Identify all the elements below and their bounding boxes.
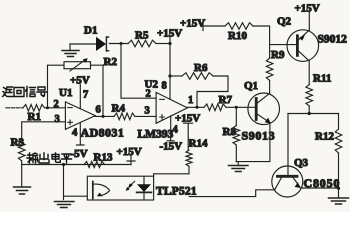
node (pin2 / R2 tap): [46, 106, 49, 109]
transistor Q1: [248, 93, 280, 125]
svg-text:R6: R6: [194, 62, 208, 74]
resistor R12: [335, 129, 342, 153]
svg-text:R14: R14: [189, 138, 208, 150]
svg-text:-15V: -15V: [160, 141, 183, 153]
resistor R14: [154, 150, 192, 176]
op-amp U1: [65, 102, 95, 129]
wire (tap down to TLP and ground): [64, 165, 88, 200]
node (R12/Q3 emitter/ground): [337, 187, 340, 190]
label 输出电平 (output level): [27, 153, 72, 163]
wire (corner to Q2 base): [270, 44, 298, 46]
ground (Q1 emitter / R8): [229, 162, 249, 172]
svg-text:D1: D1: [84, 25, 97, 37]
resistor R9: [266, 45, 273, 94]
wire (R7 to Q1 base): [226, 106, 256, 108]
svg-text:6: 6: [96, 105, 101, 116]
light arrows: [126, 181, 135, 191]
wire (ground to D1 anode): [70, 43, 96, 45]
ground (R3): [14, 187, 31, 194]
svg-text:+15V: +15V: [180, 18, 205, 30]
resistor R4: [114, 113, 135, 120]
power +15V (Q2 emitter): [295, 3, 320, 31]
svg-text:R11: R11: [313, 73, 331, 85]
diode D1: [96, 37, 109, 51]
LED (inside TLP521): [137, 176, 152, 200]
svg-text:Q1: Q1: [244, 80, 258, 92]
wire (+15V node down to U2 pin 8): [169, 44, 171, 100]
svg-text:AD8031: AD8031: [81, 126, 125, 140]
svg-text:R2: R2: [104, 56, 118, 68]
svg-text:R3: R3: [11, 137, 25, 149]
resistor R3: [18, 139, 25, 161]
ground (D1 anode): [62, 44, 79, 57]
svg-text:R8: R8: [223, 126, 237, 138]
power +15V (feeding R10): [180, 18, 225, 31]
op-amp U2 (comparator LM393): [156, 92, 187, 123]
wire (R10 to Q2 base corner): [253, 26, 270, 45]
optocoupler TLP521 box: [87, 176, 153, 200]
transistor Q2: [287, 30, 319, 62]
svg-text:-5V: -5V: [71, 148, 88, 160]
wire (Q3 left lead / rail from optocoupler): [189, 190, 274, 197]
svg-text:Q3: Q3: [294, 157, 309, 169]
wire (R5 to +15V node): [156, 43, 170, 45]
svg-text:R1: R1: [28, 111, 41, 123]
svg-text:R7: R7: [219, 94, 233, 106]
wire (Q1 emitter down, left to R8 foot): [236, 123, 270, 162]
svg-text:8: 8: [162, 81, 167, 92]
svg-text:Q2: Q2: [277, 16, 292, 28]
potentiometer R2: [48, 58, 104, 116]
wire (R11 to node): [308, 106, 310, 114]
resistor R11: [306, 85, 313, 107]
label 返回信号 (return signal): [3, 87, 48, 97]
resistor R5: [128, 40, 156, 47]
power -5V (U1 pin 4): [71, 122, 88, 160]
svg-text:R10: R10: [228, 30, 247, 42]
svg-text:TLP521: TLP521: [156, 186, 197, 198]
svg-text:R4: R4: [112, 103, 126, 115]
wire (R1 to U1 pin 2): [45, 107, 66, 109]
svg-text:3: 3: [145, 106, 150, 117]
node (R6 feedback joins output): [196, 106, 199, 109]
svg-text:S9012: S9012: [318, 34, 348, 46]
wire (U1 pin 3 left leg): [22, 122, 66, 139]
resistor R6: [170, 73, 228, 108]
node (R11/R12/Q3 base): [308, 112, 311, 115]
resistor R8: [233, 107, 240, 161]
node (output level tap): [62, 163, 65, 166]
wire (input dashes): [6, 107, 23, 109]
wire (output level rail): [22, 164, 131, 166]
wire (junction down and right to U2 pin 2): [121, 44, 156, 99]
wire (down to R12): [338, 114, 340, 130]
svg-text:LM393: LM393: [138, 129, 174, 141]
svg-text:R12: R12: [315, 131, 334, 143]
ground (right bottom): [329, 188, 349, 204]
power +15V (R13 right): [117, 146, 142, 165]
power -15V (U2 pin 4): [160, 116, 183, 153]
ground (below tap): [55, 202, 75, 208]
wire (R12 to ground node): [338, 153, 340, 188]
svg-text:+15V: +15V: [117, 146, 142, 158]
resistor R13: [84, 162, 105, 168]
svg-text:4: 4: [72, 128, 78, 139]
svg-text:2: 2: [146, 89, 151, 100]
svg-text:4: 4: [173, 125, 179, 136]
wire (U1 output to U2 pin3 through R4): [95, 115, 114, 117]
wire (D1 cathode to node): [109, 43, 128, 45]
svg-text:R13: R13: [94, 152, 113, 164]
wire (Q3 base drop): [287, 114, 289, 176]
svg-text:7: 7: [83, 90, 88, 101]
wire (U2 output to Q1 base): [187, 106, 204, 108]
transistor Q3: [272, 166, 303, 197]
wire (R3 to ground): [21, 161, 23, 187]
node (+15V / R5 / pin8 rail): [168, 42, 171, 45]
node (R6 tap): [168, 74, 171, 77]
power +5V (U1 pin 7): [70, 75, 90, 109]
wire (Q2 collector down to R11): [308, 61, 310, 85]
wire (node rail left and right): [288, 113, 339, 115]
node (R8 tap): [235, 106, 238, 109]
wire (Q3 emitter to ground node): [301, 187, 339, 189]
node (D1/R5/U2 pin2 junction): [120, 42, 123, 45]
resistor R1: [23, 105, 45, 112]
node (R2/U1 output): [102, 115, 105, 118]
power +15V (above R5 node): [157, 28, 182, 44]
svg-text:R5: R5: [135, 30, 149, 42]
resistor R10: [225, 23, 253, 30]
svg-text:R9: R9: [271, 49, 285, 61]
svg-text:U1: U1: [59, 87, 72, 99]
phototransistor (inside TLP521): [93, 182, 110, 199]
svg-text:+15V: +15V: [295, 3, 320, 15]
svg-text:3: 3: [55, 114, 60, 125]
svg-text:1: 1: [188, 95, 193, 106]
power +15V (R14 top): [175, 113, 200, 151]
resistor R7: [204, 104, 226, 111]
wire (R4 to U2 pin 3): [135, 115, 156, 117]
